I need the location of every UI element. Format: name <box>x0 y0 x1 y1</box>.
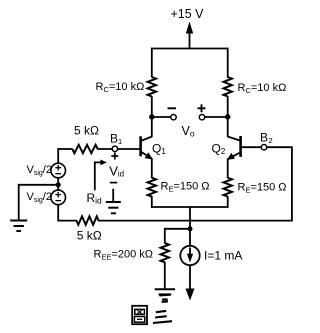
label Vsig upper <box>27 164 52 177</box>
transistor Q1 <box>141 136 153 159</box>
wire right rail to collector <box>227 96 229 137</box>
wire to minus terminal <box>152 116 171 118</box>
resistor RC2 <box>224 77 232 97</box>
label B1 <box>110 132 122 146</box>
node right collector <box>225 114 230 119</box>
source Vsig upper <box>51 163 66 178</box>
caption glyph three <box>153 295 172 323</box>
wire tail down to current source <box>189 207 191 246</box>
wire current source output arrow <box>186 265 195 300</box>
source Vsig lower <box>51 190 66 205</box>
wire left rail to collector <box>151 96 153 137</box>
caption glyph Tu (figure) <box>132 306 147 324</box>
wire RE1 to emitter line <box>151 196 153 208</box>
label plus sign <box>198 104 206 112</box>
wire 5k to Q1 base <box>97 148 139 150</box>
terminal B2 <box>261 145 266 150</box>
transistor Q2 <box>227 136 241 160</box>
wire REE branch down <box>164 228 166 244</box>
label RE2 value <box>238 182 287 195</box>
label minus sign <box>168 107 177 109</box>
wire right rail upper <box>227 48 229 78</box>
resistor 5k lower <box>77 216 99 224</box>
svg-text:+15 V: +15 V <box>171 7 205 21</box>
label Vid minus <box>110 182 117 184</box>
svg-text:RC=10 kΩ: RC=10 kΩ <box>96 81 145 94</box>
node REE junction <box>188 226 193 231</box>
wire Q1 emitter down <box>151 159 153 179</box>
wire REE to ground <box>164 262 166 290</box>
label RC2 value <box>238 82 287 95</box>
label Vsig lower <box>27 191 52 204</box>
wire Q2 emitter down <box>227 159 229 178</box>
node left collector <box>149 114 154 119</box>
resistor REE <box>161 243 169 262</box>
wire lower source to 5k <box>58 204 77 221</box>
wire REE branch horizontal <box>165 228 190 230</box>
label 5k upper <box>74 124 99 138</box>
ground REE <box>155 289 175 299</box>
terminal B1 <box>112 146 117 151</box>
svg-text:RE=150 Ω: RE=150 Ω <box>238 182 287 195</box>
ground center <box>106 189 121 214</box>
label Vid <box>109 163 124 178</box>
svg-text:RC=10 kΩ: RC=10 kΩ <box>238 82 287 95</box>
wire top rail <box>152 48 228 50</box>
svg-text:5 kΩ: 5 kΩ <box>77 228 102 242</box>
wire plus terminal to right rail <box>205 116 228 118</box>
label 5k lower <box>77 228 102 242</box>
label +15 V <box>171 7 205 21</box>
label Q2 <box>212 142 226 156</box>
svg-text:5 kΩ: 5 kΩ <box>74 124 99 138</box>
terminal Vo plus <box>199 115 204 120</box>
label I value <box>204 249 242 263</box>
wire right return vertical <box>291 146 293 220</box>
current source I <box>180 246 199 265</box>
resistor RE1 <box>148 178 156 197</box>
label Rid <box>87 191 103 206</box>
wire bottom return line <box>98 220 293 222</box>
label RC1 value <box>96 81 145 94</box>
resistor RC1 <box>148 77 156 97</box>
resistor RE2 <box>224 178 232 197</box>
svg-text:I=1 mA: I=1 mA <box>204 249 242 263</box>
wire left rail upper <box>151 48 153 78</box>
label B2 <box>260 131 273 145</box>
label Q1 <box>152 142 166 156</box>
supply arrow VCC <box>186 22 193 49</box>
arrow Rid <box>95 160 107 191</box>
wire emitter node line <box>151 206 229 208</box>
ground left <box>10 221 27 232</box>
wire B2 line right <box>242 146 292 148</box>
label Vid plus <box>111 153 118 160</box>
label Vo <box>182 124 195 139</box>
wire upper source to 5k <box>57 149 72 164</box>
label RE1 value <box>161 181 210 194</box>
label REE value <box>94 249 154 262</box>
resistor 5k upper <box>72 145 97 153</box>
wire junction to left ground <box>19 184 59 221</box>
wire RE2 to emitter line <box>227 196 229 208</box>
terminal Vo minus <box>171 115 176 120</box>
node sources junction <box>56 182 61 187</box>
svg-text:RE=150 Ω: RE=150 Ω <box>161 181 210 194</box>
wire between sources <box>57 178 59 190</box>
